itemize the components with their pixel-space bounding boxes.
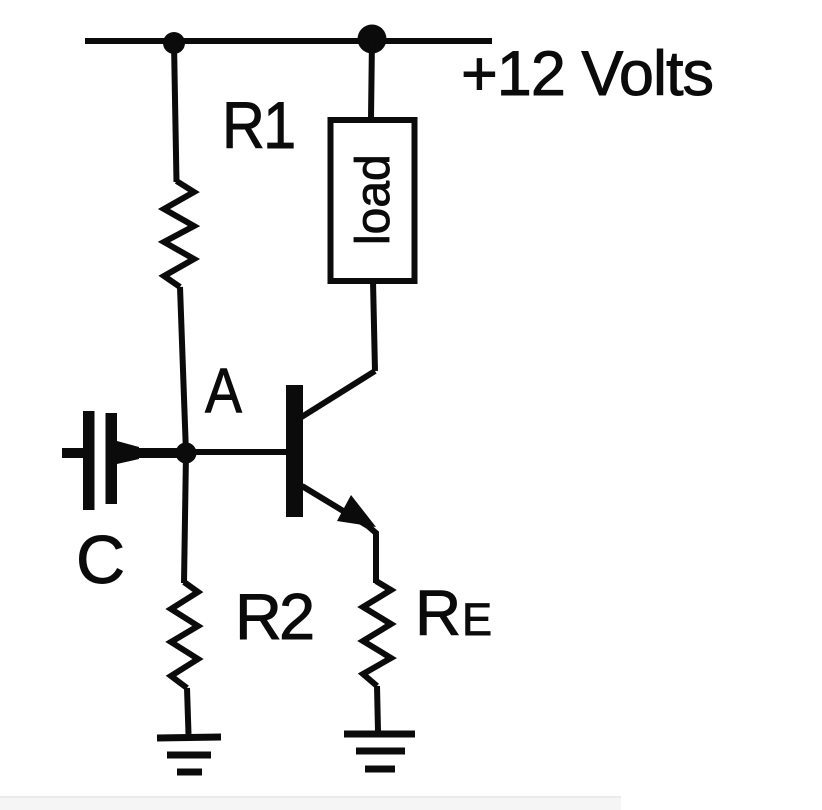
capacitor C	[62, 411, 188, 510]
transistor Q1 emitter arrowhead	[337, 495, 376, 527]
wire: rail down to R1	[174, 43, 177, 182]
ground (R2)	[157, 737, 221, 772]
svg-text:+12 Volts: +12 Volts	[461, 39, 713, 109]
load box	[331, 120, 415, 281]
capacitor C right plate	[106, 413, 118, 504]
wire: R1 to node A	[180, 287, 186, 453]
svg-text:R1: R1	[222, 89, 294, 163]
resistor R2	[171, 582, 198, 688]
svg-text:R: R	[415, 577, 461, 649]
resistor R1	[164, 181, 194, 287]
resistor RE	[363, 581, 391, 686]
node A junction dot	[176, 443, 197, 464]
scan artifact band at bottom	[0, 797, 621, 810]
svg-text:C: C	[76, 522, 125, 598]
svg-text:E: E	[462, 594, 492, 645]
capacitor C left plate	[83, 411, 95, 510]
node junction dot at rail / load branch	[358, 25, 387, 54]
capacitor C left lead	[62, 448, 84, 458]
wire: RE to ground	[377, 686, 378, 731]
wire: load down to collector corner	[373, 281, 375, 371]
ground (RE)	[344, 734, 415, 769]
wire: node A down to R2	[184, 453, 186, 583]
wire: rail down to load	[371, 39, 372, 118]
transistor Q1 base bar	[286, 385, 303, 517]
wire: capacitor to node A	[130, 448, 188, 458]
capacitor C right lead blob	[117, 441, 139, 464]
transistor Q1 emitter lead	[302, 486, 376, 583]
svg-text:A: A	[205, 355, 242, 426]
wire: node A to base	[186, 449, 288, 455]
transistor Q1 collector lead	[300, 371, 375, 418]
wire: R2 to ground	[187, 688, 189, 734]
svg-text:load: load	[347, 154, 400, 245]
wire: +12V top rail	[85, 38, 492, 44]
svg-text:R2: R2	[235, 580, 312, 653]
node junction dot at rail / R1 branch	[163, 32, 185, 54]
